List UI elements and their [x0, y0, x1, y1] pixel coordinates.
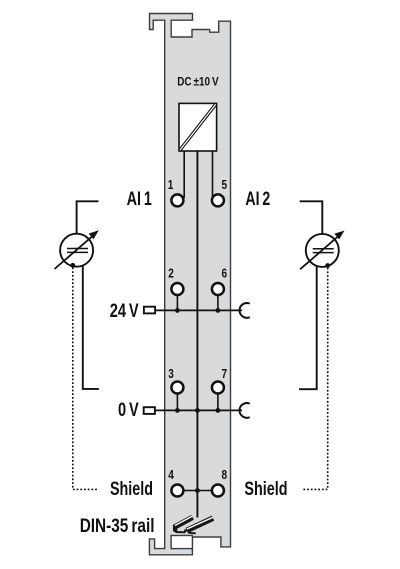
24V terminal square: [144, 307, 155, 314]
svg-text:2: 2: [168, 266, 174, 281]
svg-text:Shield: Shield: [244, 478, 287, 500]
DIN rail symbol: [174, 516, 213, 533]
module body: [149, 14, 230, 555]
junction dot 24V/6: [216, 308, 221, 313]
bottom slot notch: [171, 536, 192, 549]
sensor source B2 (right): [306, 234, 339, 267]
svg-text:3: 3: [168, 366, 174, 381]
svg-text:Shield: Shield: [110, 478, 153, 500]
wire shield connector: [184, 490, 211, 492]
right sensor bracket wire: [299, 201, 322, 389]
junction dot 24V/2: [175, 308, 180, 313]
A/D converter U1: [179, 103, 217, 151]
junction dot left sensor shield: [70, 263, 75, 268]
terminal 6: [212, 283, 224, 295]
0V continuation arc: [240, 403, 249, 418]
terminal 3: [171, 382, 183, 394]
svg-text:4: 4: [168, 467, 174, 482]
terminal 1: [171, 194, 183, 206]
svg-text:DIN-35 rail: DIN-35 rail: [80, 515, 155, 537]
24V continuation arc: [240, 303, 249, 318]
svg-text:AI 2: AI 2: [245, 188, 270, 210]
sensor source B1 (left): [60, 234, 93, 267]
junction dot 0V/3: [175, 408, 180, 413]
svg-text:5: 5: [222, 177, 228, 192]
junction dot 0V/center: [195, 408, 200, 413]
junction dot shield/center: [195, 488, 200, 493]
wire terminal 2 to 24V bus: [176, 296, 178, 311]
24V bus wire: [156, 309, 242, 311]
wire center line to DIN rail: [196, 151, 198, 518]
wire box pin to terminal 1: [183, 151, 185, 198]
wire terminal 3 to 0V bus: [176, 394, 178, 410]
terminal 2: [171, 283, 183, 295]
svg-text:6: 6: [222, 266, 228, 281]
dotted shield wire left: [73, 268, 98, 490]
wire terminal 6 to 24V bus: [217, 296, 219, 311]
junction dot 0V/7: [216, 408, 221, 413]
0V bus wire: [156, 409, 242, 411]
svg-text:AI 1: AI 1: [127, 188, 152, 210]
left sensor bracket wire: [77, 201, 99, 389]
svg-text:1: 1: [168, 177, 174, 192]
svg-text:DC ±10 V: DC ±10 V: [177, 75, 218, 89]
svg-text:7: 7: [222, 366, 228, 381]
wire terminal 7 to 0V bus: [217, 394, 219, 410]
svg-text:24 V: 24 V: [110, 300, 139, 322]
wire box pin to terminal 5: [212, 151, 214, 198]
dotted shield wire right: [302, 268, 327, 490]
svg-text:0 V: 0 V: [118, 399, 139, 421]
0V terminal square: [144, 407, 155, 414]
terminal 7: [212, 382, 224, 394]
svg-text:8: 8: [222, 467, 228, 482]
terminal 8: [212, 485, 224, 497]
terminal 4: [171, 485, 183, 497]
junction dot right sensor shield: [325, 263, 330, 268]
terminal 5: [212, 194, 224, 206]
